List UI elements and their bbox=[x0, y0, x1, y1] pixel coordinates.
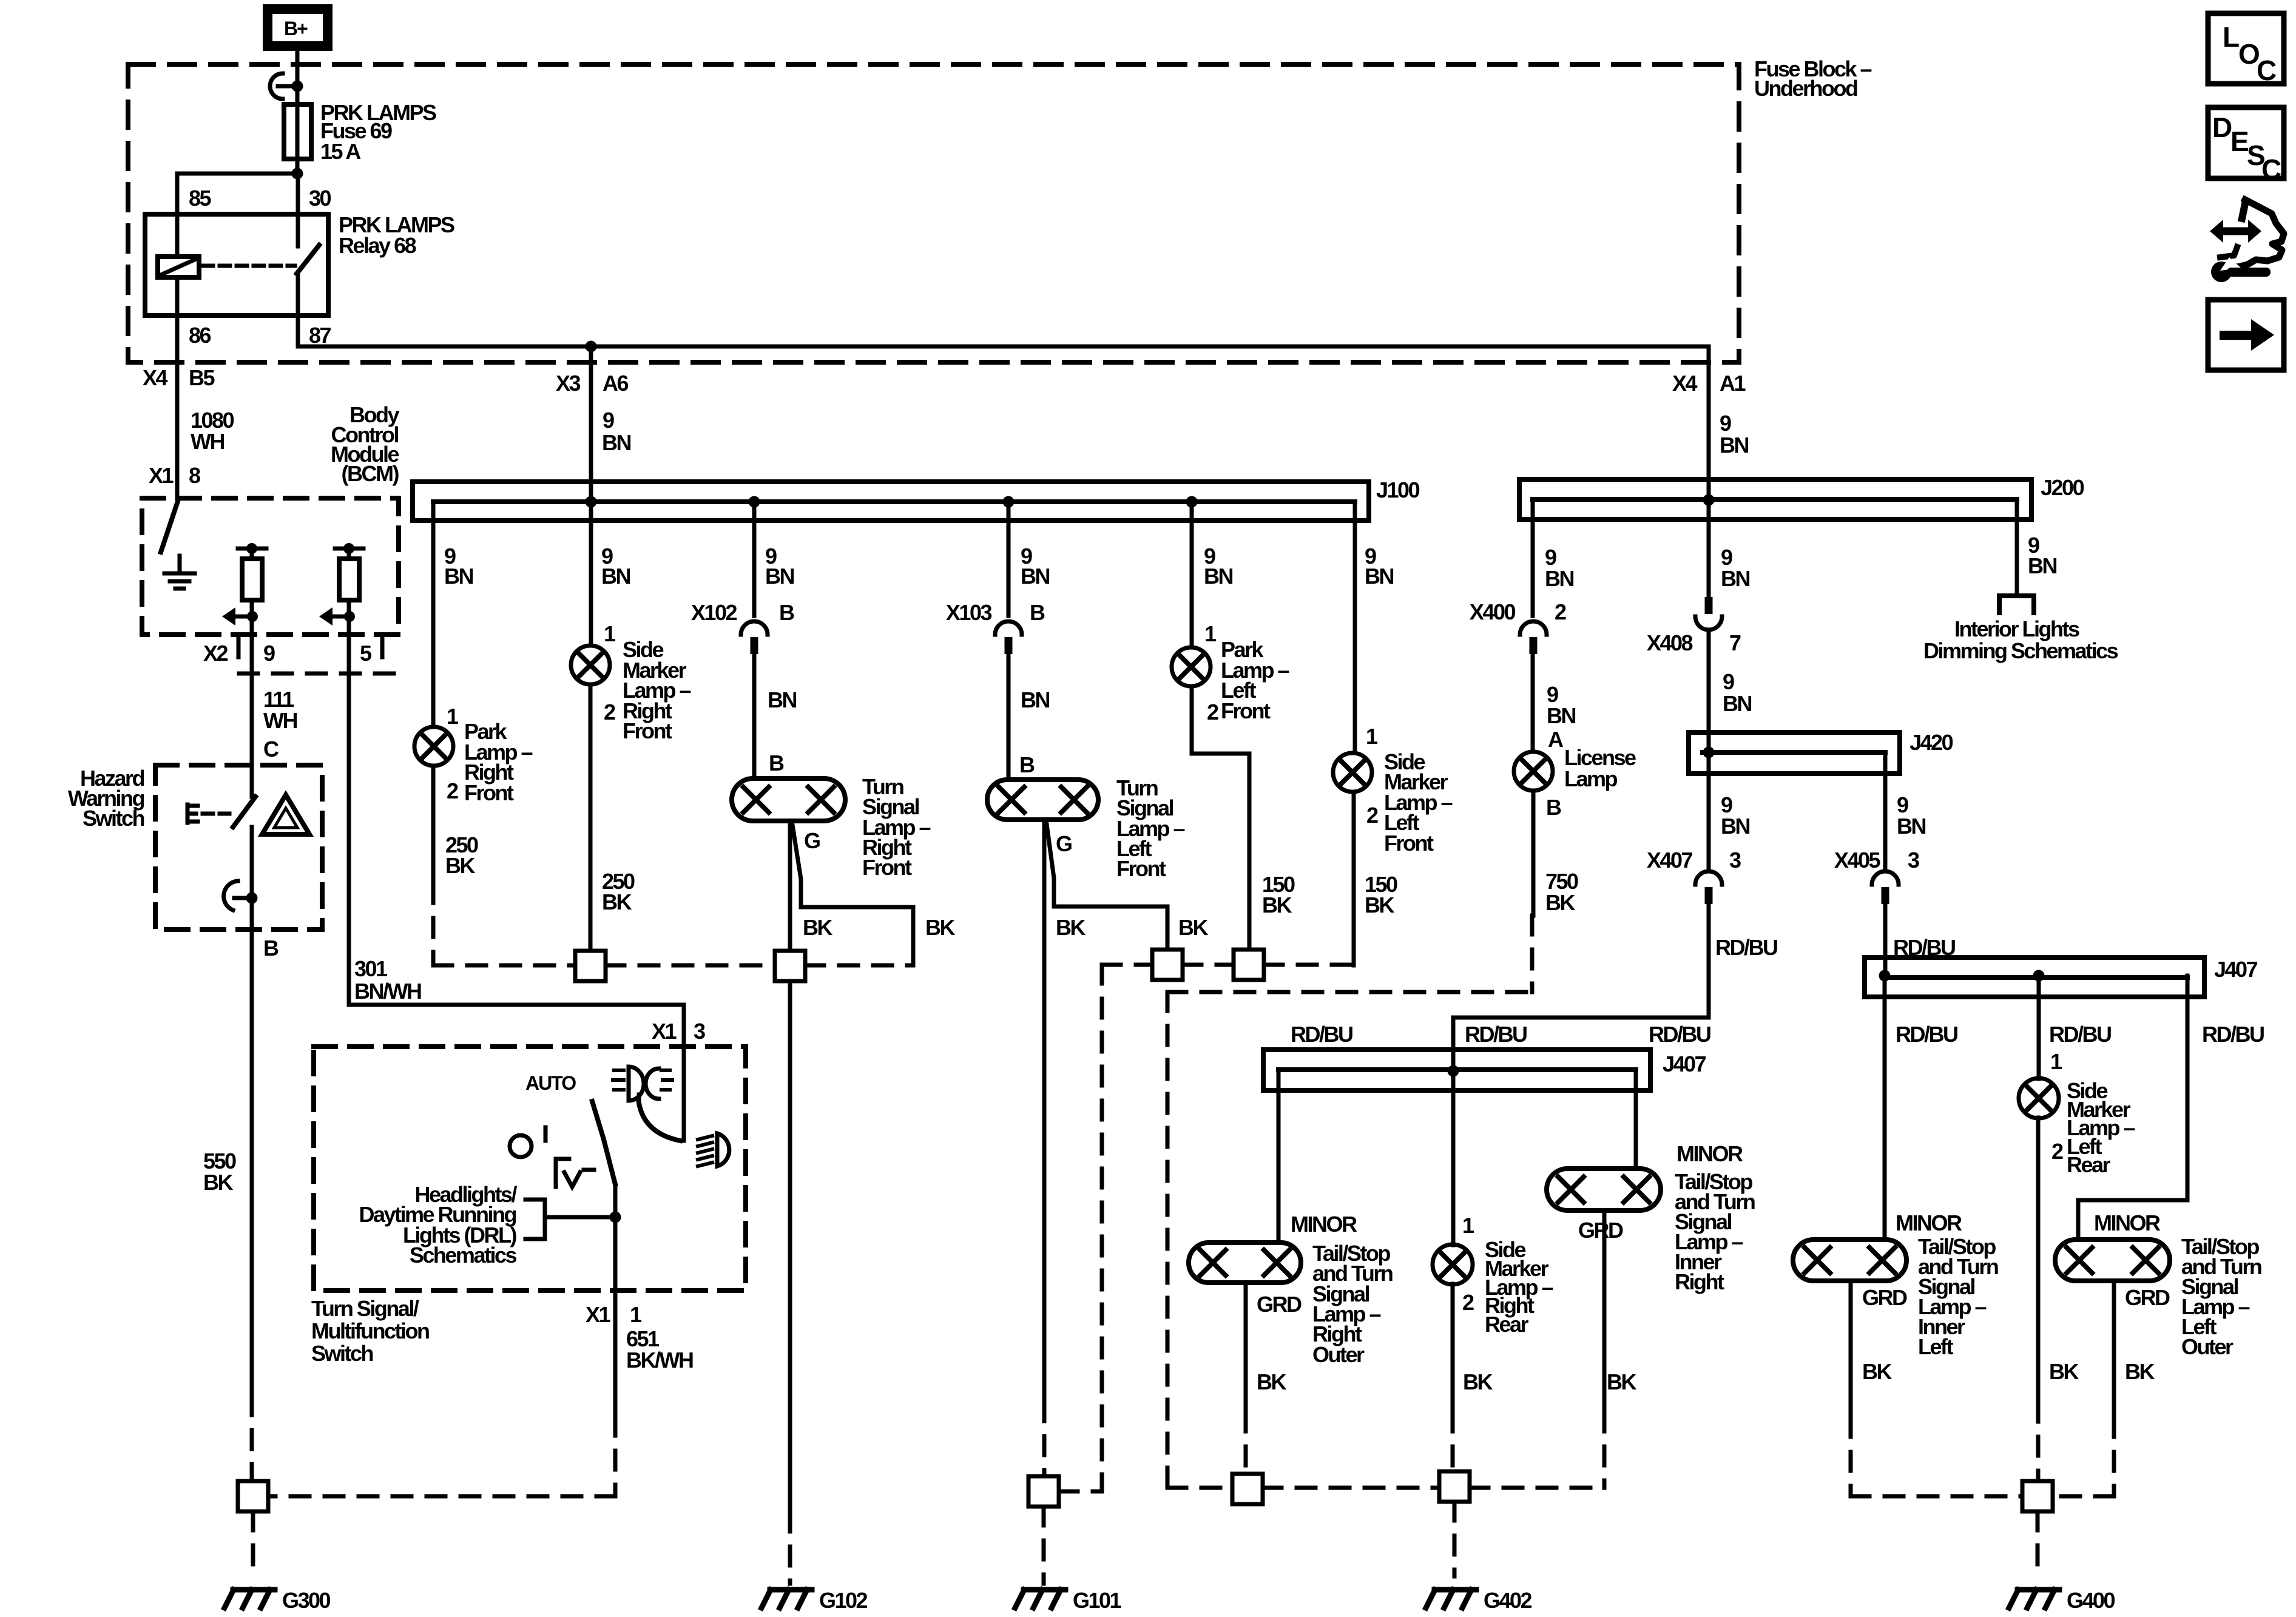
svg-text:86: 86 bbox=[189, 323, 211, 348]
svg-text:RD/BU: RD/BU bbox=[2049, 1022, 2111, 1047]
svg-text:BK: BK bbox=[1862, 1359, 1892, 1384]
svg-text:J407: J407 bbox=[2214, 957, 2258, 982]
wire 9 BN to J420 bbox=[1707, 630, 1711, 871]
J100 junction x=1662 bbox=[1003, 496, 1015, 508]
wire 250 BK bbox=[589, 684, 593, 951]
svg-text:RD/BU: RD/BU bbox=[1465, 1022, 1527, 1047]
J407 junction bbox=[1448, 1065, 1459, 1077]
svg-text:AUTO: AUTO bbox=[525, 1072, 576, 1094]
svg-text:B5: B5 bbox=[189, 365, 215, 390]
ground G101 bbox=[1015, 1590, 1065, 1608]
turn signal lamp - left front bbox=[987, 780, 1098, 820]
svg-text:BN: BN bbox=[602, 430, 630, 455]
svg-text:BN: BN bbox=[1897, 814, 1925, 839]
junction X3 tap bbox=[586, 341, 597, 353]
svg-text:(BCM): (BCM) bbox=[342, 461, 399, 486]
wire BK side marker RR bbox=[1451, 1284, 1455, 1413]
svg-text:G: G bbox=[1056, 831, 1072, 856]
icon hand with wrench bbox=[2210, 200, 2284, 282]
side marker lamp - left front bbox=[1333, 753, 1372, 792]
svg-text:BN: BN bbox=[601, 564, 630, 589]
dashed 750 BK to G402 path bbox=[1167, 916, 1532, 1488]
wire to tail lamp inner right bbox=[1634, 1071, 1638, 1169]
J100 junction x=1964 bbox=[1186, 496, 1198, 508]
svg-text:RD/BU: RD/BU bbox=[2202, 1022, 2264, 1047]
svg-text:5: 5 bbox=[360, 641, 372, 666]
wire B+ to fuse bbox=[295, 51, 300, 174]
wire 301 BN/WH bbox=[347, 622, 351, 1005]
hazard lower contact bbox=[224, 881, 238, 910]
wire 9 BN side marker LF bbox=[1353, 502, 1357, 753]
off position circle bbox=[510, 1135, 532, 1157]
svg-text:J407: J407 bbox=[1663, 1052, 1706, 1076]
J407 junction marker bbox=[2033, 970, 2045, 982]
wire relay pin 30 bbox=[296, 174, 300, 246]
dashed BK drops to G402 row bbox=[1246, 1413, 1604, 1488]
svg-text:2: 2 bbox=[1366, 803, 1378, 828]
svg-text:Front: Front bbox=[862, 855, 912, 880]
ground splice square bbox=[575, 951, 606, 981]
wire 9 BN side marker RF bbox=[589, 346, 593, 646]
BCM internal switch bbox=[161, 499, 178, 552]
wire relay pin 85 bbox=[175, 174, 180, 257]
wire 9 BN X102 bbox=[752, 502, 757, 616]
svg-text:30: 30 bbox=[309, 186, 331, 211]
svg-text:BN: BN bbox=[1021, 687, 1049, 712]
svg-text:MINOR: MINOR bbox=[1896, 1210, 1962, 1235]
ground G400 bbox=[2009, 1590, 2059, 1608]
J407 junction X405 bbox=[1879, 970, 1891, 982]
wire lamp ground bbox=[788, 821, 792, 951]
svg-text:J100: J100 bbox=[1376, 478, 1420, 502]
svg-text:2: 2 bbox=[1555, 599, 1566, 624]
hazard warning triangle icon bbox=[262, 795, 309, 834]
wire BK right outer bbox=[1244, 1283, 1248, 1413]
BCM driver resistor at x=575 bbox=[319, 543, 363, 626]
turn signal lamp - right front bbox=[732, 778, 845, 821]
301 BN/WH routing to multifunction switch bbox=[349, 1005, 684, 1141]
relay switch blade bbox=[297, 245, 319, 274]
icon arrow next bbox=[2208, 300, 2284, 370]
svg-text:Relay 68: Relay 68 bbox=[339, 233, 416, 258]
wire 750 BK bbox=[1531, 791, 1536, 916]
splice pack J407 rear right bbox=[1263, 1050, 1650, 1090]
tail/stop and turn signal lamp - left outer bbox=[2055, 1240, 2170, 1281]
svg-text:BN: BN bbox=[768, 687, 796, 712]
svg-text:3: 3 bbox=[694, 1019, 705, 1044]
svg-text:Right: Right bbox=[1675, 1269, 1724, 1294]
wire to side marker RR bbox=[1451, 1071, 1456, 1245]
svg-text:WH: WH bbox=[191, 429, 224, 454]
ground splice square G300 bbox=[238, 1481, 268, 1511]
wire relay pin 87 bbox=[296, 274, 300, 346]
svg-text:1: 1 bbox=[604, 621, 616, 646]
junction DRL tap bbox=[610, 1212, 621, 1223]
switch blade bbox=[592, 1101, 615, 1184]
svg-text:Switch: Switch bbox=[83, 806, 144, 831]
wire 9 BN license bbox=[1531, 500, 1535, 616]
Turn Signal / Multifunction Switch dashed box bbox=[314, 1047, 746, 1291]
svg-text:BK: BK bbox=[1607, 1369, 1636, 1394]
svg-text:X1: X1 bbox=[149, 463, 174, 488]
svg-text:BN: BN bbox=[1204, 564, 1232, 589]
svg-text:Lamp: Lamp bbox=[1564, 766, 1618, 791]
svg-text:2: 2 bbox=[1207, 700, 1218, 724]
svg-text:BK/WH: BK/WH bbox=[626, 1348, 693, 1372]
svg-text:85: 85 bbox=[189, 186, 212, 211]
svg-text:X2: X2 bbox=[203, 641, 228, 666]
hazard switch blade bbox=[233, 797, 255, 827]
svg-text:2: 2 bbox=[1462, 1290, 1474, 1315]
wire 250 BK bbox=[431, 766, 436, 884]
splice pack J420 bbox=[1689, 732, 1900, 774]
svg-text:X407: X407 bbox=[1647, 848, 1693, 873]
svg-text:8: 8 bbox=[189, 463, 200, 488]
low beam icon bbox=[698, 1133, 729, 1166]
park position symbol bbox=[556, 1159, 601, 1187]
svg-text:87: 87 bbox=[309, 323, 331, 348]
svg-text:BK: BK bbox=[925, 915, 955, 940]
svg-text:BN: BN bbox=[1021, 564, 1049, 589]
svg-text:BN: BN bbox=[1545, 566, 1573, 591]
J100 junction x=1243 bbox=[749, 496, 760, 508]
svg-text:Rear: Rear bbox=[1485, 1312, 1529, 1337]
splice pack J100 bbox=[413, 482, 1369, 521]
svg-text:B: B bbox=[1030, 600, 1045, 625]
svg-text:C: C bbox=[2257, 55, 2276, 86]
svg-text:BN: BN bbox=[1720, 433, 1748, 457]
svg-text:Switch: Switch bbox=[311, 1341, 373, 1366]
svg-text:9: 9 bbox=[263, 641, 275, 666]
ground splice square G402 bbox=[1439, 1471, 1470, 1502]
wire 9 BN interior lights bbox=[2015, 500, 2019, 596]
dashed 550 BK to G300 bbox=[250, 1396, 254, 1481]
wire lamp ground to G101 bbox=[1042, 820, 1047, 1402]
svg-text:MINOR: MINOR bbox=[1291, 1212, 1357, 1237]
svg-text:BK: BK bbox=[1365, 893, 1394, 917]
dashed to G300 ground bbox=[251, 1511, 255, 1576]
Hazard Warning Switch dashed box bbox=[155, 765, 322, 930]
svg-text:Underhood: Underhood bbox=[1754, 76, 1857, 101]
battery feed B+ bbox=[263, 4, 333, 51]
wire to relay coil bbox=[177, 172, 297, 176]
svg-text:Multifunction: Multifunction bbox=[311, 1318, 429, 1343]
svg-text:B: B bbox=[1546, 795, 1561, 820]
wire pin 87 feed rail bbox=[298, 345, 1709, 349]
ground G300 bbox=[225, 1590, 275, 1608]
dashed body ground path bbox=[431, 884, 436, 965]
svg-text:BN: BN bbox=[2028, 553, 2056, 578]
svg-text:BK: BK bbox=[2049, 1359, 2079, 1384]
svg-text:Front: Front bbox=[464, 780, 514, 805]
svg-text:Front: Front bbox=[623, 718, 672, 743]
svg-text:15 A: 15 A bbox=[320, 139, 361, 164]
svg-text:BK: BK bbox=[445, 853, 475, 878]
svg-text:7: 7 bbox=[1729, 630, 1741, 655]
svg-text:MINOR: MINOR bbox=[1676, 1141, 1743, 1166]
svg-text:BK: BK bbox=[1257, 1369, 1286, 1394]
dashed 651 BK/WH to G300 bbox=[268, 1417, 615, 1496]
svg-text:Left: Left bbox=[1918, 1334, 1954, 1359]
dashed ground bus front left bbox=[1059, 965, 1354, 1491]
svg-text:WH: WH bbox=[263, 708, 297, 733]
wire G BK jog bbox=[792, 821, 913, 965]
svg-text:BN/WH: BN/WH bbox=[354, 979, 421, 1004]
wire to tail lamp left outer bbox=[2078, 976, 2187, 1240]
svg-text:B: B bbox=[263, 936, 279, 960]
svg-text:X103: X103 bbox=[946, 600, 992, 625]
svg-text:GRD: GRD bbox=[1257, 1292, 1302, 1317]
svg-text:Outer: Outer bbox=[1312, 1342, 1365, 1367]
svg-text:BN: BN bbox=[1723, 691, 1751, 716]
dashed ground bus front right bbox=[433, 964, 913, 968]
svg-text:3: 3 bbox=[1908, 848, 1919, 873]
svg-text:BN: BN bbox=[1721, 814, 1749, 839]
wire BK inner right bbox=[1602, 1210, 1607, 1413]
svg-text:BK: BK bbox=[803, 915, 832, 940]
svg-text:J200: J200 bbox=[2041, 475, 2084, 500]
svg-text:Rear: Rear bbox=[2067, 1152, 2111, 1177]
BCM driver resistor at x=415 bbox=[222, 543, 266, 626]
svg-text:Turn Signal/: Turn Signal/ bbox=[311, 1296, 419, 1321]
svg-text:GRD: GRD bbox=[1862, 1285, 1907, 1310]
J100 junction x=974 bbox=[586, 496, 597, 508]
wire 9 BN X408 bbox=[1707, 500, 1711, 597]
svg-text:Front: Front bbox=[1384, 831, 1434, 856]
svg-text:X4: X4 bbox=[1672, 371, 1698, 396]
side marker lamp - right rear bbox=[1433, 1244, 1473, 1284]
svg-text:Schematics: Schematics bbox=[410, 1243, 517, 1268]
svg-text:GRD: GRD bbox=[2125, 1285, 2170, 1310]
wire 111 WH bbox=[250, 622, 254, 797]
wire RD/BU to J407 left bbox=[1453, 899, 1709, 1071]
ground splice square bbox=[775, 951, 805, 981]
svg-text:G: G bbox=[804, 828, 820, 853]
wire BK left outer bbox=[2112, 1281, 2116, 1418]
wire BK side marker LR bbox=[2036, 1118, 2041, 1403]
ground G102 bbox=[761, 1590, 812, 1608]
headlamp switch wiper arc bbox=[639, 1103, 680, 1141]
svg-text:Front: Front bbox=[1116, 856, 1166, 881]
license lamp bbox=[1514, 752, 1553, 791]
wire X4/A1 drop bbox=[1707, 346, 1711, 597]
svg-text:BK: BK bbox=[1545, 890, 1575, 915]
svg-text:3: 3 bbox=[1729, 848, 1741, 873]
wire BN bbox=[1007, 654, 1011, 780]
wire to side marker LR bbox=[2037, 976, 2041, 1079]
J420 junction bbox=[1703, 747, 1715, 758]
svg-text:X400: X400 bbox=[1470, 599, 1516, 624]
ground G402 bbox=[1426, 1590, 1476, 1608]
splice pack J407 rear left bbox=[1865, 957, 2204, 997]
headlights DRL reference bracket bbox=[525, 1200, 615, 1239]
svg-text:B: B bbox=[1019, 752, 1035, 777]
svg-text:GRD: GRD bbox=[1578, 1218, 1623, 1243]
svg-text:B+: B+ bbox=[284, 18, 308, 39]
relay PRK LAMPS Relay 68 bbox=[145, 214, 328, 316]
svg-text:BK: BK bbox=[1262, 893, 1292, 917]
ground splice square G101 bbox=[1028, 1476, 1059, 1507]
svg-text:E: E bbox=[2230, 126, 2249, 157]
tail/stop and turn signal lamp - inner right bbox=[1547, 1169, 1661, 1210]
position tick bbox=[544, 1127, 548, 1141]
side marker lamp - left rear bbox=[2019, 1078, 2059, 1118]
svg-text:B: B bbox=[769, 751, 784, 775]
svg-text:RD/BU: RD/BU bbox=[1291, 1022, 1352, 1047]
ground splice square bbox=[1234, 950, 1264, 980]
dashed to G400 ground bbox=[2036, 1511, 2040, 1576]
svg-text:X1: X1 bbox=[586, 1302, 611, 1327]
hazard mechanical link E bbox=[187, 805, 229, 823]
svg-text:G400: G400 bbox=[2067, 1588, 2115, 1613]
svg-text:2: 2 bbox=[447, 778, 458, 803]
dashed to G101 ground bbox=[1044, 1402, 1044, 1584]
svg-text:D: D bbox=[2212, 112, 2232, 143]
svg-text:L: L bbox=[2223, 21, 2239, 53]
wire to tail lamp inner left bbox=[1883, 976, 1887, 1240]
wire 9 BN park lamp LF bbox=[1190, 502, 1194, 647]
svg-text:BK: BK bbox=[2125, 1359, 2155, 1384]
svg-text:G300: G300 bbox=[282, 1588, 331, 1613]
dashed to G402 ground bbox=[1453, 1502, 1457, 1576]
relay coil link dashes bbox=[203, 264, 295, 268]
svg-text:BK: BK bbox=[1463, 1369, 1493, 1394]
svg-text:J420: J420 bbox=[1909, 730, 1953, 755]
svg-text:B: B bbox=[779, 600, 794, 625]
svg-text:RD/BU: RD/BU bbox=[1649, 1022, 1710, 1047]
wire pin 86 to BCM bbox=[175, 277, 180, 498]
tail/stop and turn signal lamp - inner left bbox=[1793, 1240, 1906, 1281]
fuse holder clip bbox=[270, 73, 283, 99]
dashed to G102 ground bbox=[788, 1513, 792, 1584]
svg-text:2: 2 bbox=[604, 700, 615, 724]
svg-text:X102: X102 bbox=[691, 600, 737, 625]
wire to tail lamp right outer bbox=[1277, 1071, 1281, 1243]
junction below fuse bbox=[292, 168, 303, 180]
headlamp on icon bbox=[613, 1067, 672, 1101]
svg-text:X1: X1 bbox=[652, 1019, 677, 1044]
svg-text:1: 1 bbox=[630, 1302, 642, 1327]
interior lights reference fork bbox=[1999, 596, 2034, 613]
svg-text:BN: BN bbox=[1365, 564, 1393, 589]
svg-text:Outer: Outer bbox=[2181, 1334, 2234, 1359]
wire X3/A6 drop bbox=[589, 346, 593, 646]
svg-text:RD/BU: RD/BU bbox=[1896, 1022, 1957, 1047]
svg-text:A1: A1 bbox=[1720, 371, 1746, 396]
svg-text:MINOR: MINOR bbox=[2094, 1210, 2161, 1235]
svg-text:1: 1 bbox=[1204, 621, 1217, 646]
wire 550 BK bbox=[250, 827, 254, 1396]
svg-text:C: C bbox=[263, 737, 279, 761]
svg-text:RD/BU: RD/BU bbox=[1715, 935, 1777, 960]
svg-text:9: 9 bbox=[603, 408, 614, 433]
svg-text:9: 9 bbox=[1720, 411, 1731, 436]
svg-text:Interior Lights: Interior Lights bbox=[1954, 616, 2079, 641]
svg-text:BN: BN bbox=[1547, 703, 1575, 728]
svg-text:X408: X408 bbox=[1647, 630, 1693, 655]
svg-text:BN: BN bbox=[765, 564, 794, 589]
svg-text:BK: BK bbox=[1178, 915, 1208, 940]
icon LOC bbox=[2208, 13, 2284, 86]
svg-text:G402: G402 bbox=[1484, 1588, 1532, 1613]
svg-text:BN: BN bbox=[1721, 566, 1749, 591]
wire BK inner left bbox=[1849, 1281, 1853, 1418]
wire 9 BN bbox=[1531, 654, 1535, 752]
svg-text:1: 1 bbox=[2050, 1049, 2062, 1074]
wire 9 BN X103 bbox=[1007, 502, 1011, 616]
svg-text:BK: BK bbox=[1056, 915, 1086, 940]
svg-text:G101: G101 bbox=[1073, 1588, 1122, 1613]
ground splice square G400 bbox=[2022, 1481, 2053, 1511]
svg-text:BK: BK bbox=[203, 1170, 233, 1195]
splice pack J200 bbox=[1519, 479, 2031, 519]
wire 150 BK bbox=[1192, 686, 1249, 950]
side marker lamp - right front bbox=[571, 646, 610, 684]
svg-text:2: 2 bbox=[2051, 1139, 2063, 1164]
svg-text:1: 1 bbox=[1366, 724, 1378, 749]
Body Control Module (BCM) dashed box bbox=[142, 498, 399, 635]
wire 9 BN to X405 bbox=[1883, 752, 1888, 871]
BCM internal ground bbox=[164, 556, 195, 589]
svg-text:G102: G102 bbox=[819, 1588, 868, 1613]
svg-text:301: 301 bbox=[354, 956, 388, 981]
park lamp - left front bbox=[1172, 647, 1210, 686]
J200 junction bbox=[1703, 495, 1715, 506]
wire 9 BN park lamp RF bbox=[431, 502, 436, 727]
tail/stop and turn signal lamp - right outer bbox=[1189, 1243, 1301, 1283]
wire 150 BK bbox=[1352, 792, 1356, 965]
dashed BK drops to G400 row bbox=[1851, 1403, 2114, 1496]
wire 651 BK/WH bbox=[613, 1184, 618, 1417]
wire BN bbox=[752, 654, 757, 778]
icon DESC bbox=[2208, 107, 2284, 185]
wire to G102 bbox=[788, 981, 792, 1513]
svg-text:X3: X3 bbox=[556, 371, 581, 396]
svg-text:Front: Front bbox=[1221, 698, 1271, 723]
connector X2 bracket bbox=[238, 638, 399, 673]
svg-text:9: 9 bbox=[1723, 669, 1734, 694]
junction clip bbox=[292, 81, 303, 92]
svg-text:1: 1 bbox=[447, 704, 459, 729]
park lamp - right front bbox=[414, 727, 453, 766]
ground splice square bbox=[1152, 950, 1183, 980]
svg-text:1: 1 bbox=[1462, 1213, 1474, 1238]
svg-text:Dimming Schematics: Dimming Schematics bbox=[1923, 638, 2118, 663]
svg-text:A6: A6 bbox=[603, 371, 628, 396]
svg-text:X4: X4 bbox=[143, 365, 168, 390]
svg-text:C: C bbox=[2261, 154, 2281, 185]
wire RD/BU to J407 right bbox=[1883, 899, 1888, 976]
relay coil bbox=[158, 257, 199, 277]
wire G BK jog bbox=[1046, 820, 1167, 950]
svg-text:BN: BN bbox=[444, 564, 473, 589]
wiper tick bbox=[637, 1095, 641, 1103]
fuse PRK LAMPS Fuse 69 15A bbox=[284, 104, 311, 159]
ground splice square bbox=[1232, 1474, 1263, 1504]
svg-text:BK: BK bbox=[602, 890, 632, 914]
svg-text:X405: X405 bbox=[1834, 848, 1881, 873]
fuse block underhood dashed box bbox=[128, 64, 1739, 362]
svg-text:A: A bbox=[1548, 727, 1564, 752]
